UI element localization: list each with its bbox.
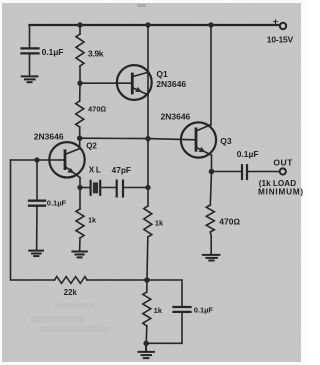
node: junction on Q1 emitter line bbox=[145, 136, 150, 141]
svg-text:0.1µF: 0.1µF bbox=[194, 306, 214, 315]
wire: 470 ohm to Q2 collector node bbox=[79, 127, 81, 138]
OUT terminal bbox=[280, 168, 286, 174]
svg-text:1k: 1k bbox=[155, 218, 164, 227]
crystal XL bbox=[91, 181, 101, 195]
resistor R8 1k (bottom) bbox=[143, 292, 151, 326]
capacitor C1 0.1uF (top left) bbox=[22, 48, 39, 53]
resistor R4 1k (middle) bbox=[144, 206, 152, 237]
ground (under R3) bbox=[72, 252, 86, 258]
wire: 1k to bottom junction bbox=[146, 237, 149, 280]
svg-text:47pF: 47pF bbox=[112, 165, 131, 175]
svg-text:3.9k: 3.9k bbox=[88, 48, 104, 58]
svg-text:470Ω: 470Ω bbox=[88, 104, 107, 113]
wire: 1k bottom to ground node bbox=[145, 326, 148, 343]
svg-text:0.1µF: 0.1µF bbox=[42, 47, 64, 57]
svg-text:+: + bbox=[273, 17, 278, 27]
wire: crystal to 47pF bbox=[101, 187, 115, 189]
svg-text:2N3646: 2N3646 bbox=[156, 79, 186, 89]
node: rail junction at Q3 collector line bbox=[208, 22, 213, 27]
node: Q1 base junction bbox=[77, 81, 82, 86]
capacitor C5 0.1uF (bottom) bbox=[174, 307, 191, 312]
ground (under C1) bbox=[22, 76, 38, 82]
wire: C1 to ground bbox=[29, 54, 31, 75]
capacitor C2 0.1uF (Q2 base bypass) bbox=[29, 201, 45, 206]
resistor R7 22k bbox=[55, 277, 88, 284]
supply terminal + 10-15V bbox=[280, 23, 286, 29]
ground (under R6) bbox=[203, 255, 220, 261]
svg-text:0.1µF: 0.1µF bbox=[237, 149, 259, 159]
ground (under C2) bbox=[29, 251, 43, 257]
node: Q2 collector / divider junction bbox=[77, 136, 82, 141]
wire: Q1 collector/emitter vertical line from rail bbox=[147, 25, 149, 206]
svg-text:Q2: Q2 bbox=[86, 142, 97, 151]
wire: Q2 base lead bbox=[11, 159, 65, 161]
svg-text:0.1µF: 0.1µF bbox=[47, 199, 67, 208]
node: crystal line junction on vertical wire bbox=[145, 185, 150, 190]
svg-text:2N3646: 2N3646 bbox=[161, 111, 191, 121]
wire: C5 return to ground junction bbox=[146, 312, 182, 343]
wire: top-left cap to rail bbox=[29, 25, 31, 48]
svg-text:2N3646: 2N3646 bbox=[34, 131, 64, 141]
node: Q2 emitter junction bbox=[77, 185, 82, 190]
wire: bottom junction down to 1k bbox=[146, 280, 148, 292]
node: rail junction at Q1 collector line bbox=[145, 22, 150, 27]
svg-text:MINIMUM): MINIMUM) bbox=[258, 187, 304, 196]
node: bottom feedback junction bbox=[144, 277, 150, 283]
wire: base node down to 470 ohm bbox=[79, 83, 81, 101]
svg-text:XL: XL bbox=[89, 165, 102, 174]
wire: Q3 collector line from rail bbox=[210, 25, 212, 125]
resistor R1 3.9k bbox=[76, 34, 84, 66]
svg-text:1k: 1k bbox=[154, 306, 163, 315]
node: Q2 base / bypass cap junction bbox=[34, 157, 39, 162]
svg-text:Q3: Q3 bbox=[220, 136, 232, 146]
wire: junction down to bypass cap bbox=[36, 160, 38, 200]
wire: emitter node down to 470 ohm bbox=[210, 172, 211, 206]
wire: C2 to ground bbox=[36, 206, 38, 250]
wire: 22k to bottom junction bbox=[87, 279, 147, 281]
wire: 3.9k to Q1 base node bbox=[79, 66, 81, 83]
wire: left feedback loop bbox=[11, 160, 55, 280]
wire: junction across to Q3 base bbox=[80, 138, 195, 140]
ground (bottom) bbox=[139, 343, 155, 358]
wire: bottom junction to 0.1uF branch bbox=[147, 280, 182, 306]
wire: +V top rail bbox=[30, 24, 280, 26]
wire: rail to 3.9k bbox=[79, 25, 81, 34]
node: rail junction at 3.9k bbox=[77, 22, 82, 27]
svg-text:22k: 22k bbox=[64, 288, 78, 297]
wire: 47pF to vertical line bbox=[124, 187, 148, 189]
resistor R3 1k (Q2 emitter) bbox=[76, 209, 84, 238]
resistor R6 470 ohm (Q3 emitter) bbox=[206, 205, 214, 232]
svg-text:Q1: Q1 bbox=[156, 69, 168, 79]
node: bottom ground junction bbox=[143, 341, 149, 347]
node: Q3 emitter / output junction bbox=[209, 169, 215, 175]
wire: 470 ohm to ground bbox=[209, 232, 212, 254]
wire: Q2 emitter node down to 1k bbox=[79, 188, 81, 210]
transistor Q1 2N3646 bbox=[117, 65, 152, 100]
transistor Q2 2N3646 bbox=[49, 138, 84, 187]
wire: Q1 base lead bbox=[80, 82, 131, 84]
resistor R2 470 ohm bbox=[76, 101, 84, 127]
wire: emitter node to crystal bbox=[80, 187, 90, 189]
wire: output cap to OUT terminal bbox=[248, 171, 279, 173]
svg-text:470Ω: 470Ω bbox=[219, 216, 240, 226]
capacitor C4 0.1uF (output) bbox=[242, 165, 247, 179]
svg-text:1k: 1k bbox=[88, 215, 97, 224]
wire: emitter node to output cap bbox=[212, 171, 241, 173]
transistor Q3 2N3646 bbox=[181, 122, 216, 171]
capacitor C3 47pF bbox=[117, 181, 123, 197]
wire: 1k to ground bbox=[79, 238, 81, 251]
svg-text:OUT: OUT bbox=[273, 157, 293, 167]
svg-text:10-15V: 10-15V bbox=[267, 34, 294, 44]
